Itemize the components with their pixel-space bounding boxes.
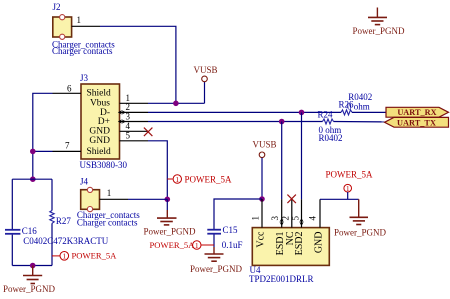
wire R27 bottom	[51, 223, 53, 265]
port UART_TX	[385, 117, 449, 127]
svg-text:1: 1	[195, 241, 199, 250]
node Vbus junction	[173, 101, 179, 107]
resistor R24 0 ohm	[323, 119, 334, 124]
svg-text:Power_PGND: Power_PGND	[144, 226, 197, 236]
wire D-	[148, 111, 341, 113]
svg-text:GND: GND	[313, 232, 324, 254]
svg-text:ESD2: ESD2	[294, 232, 305, 256]
no-ERC cross pin 4	[144, 128, 153, 137]
U4 pin 1 Vcc stub	[261, 199, 263, 228]
svg-text:POWER_5A: POWER_5A	[72, 250, 118, 260]
wire R27 branch top	[51, 179, 53, 210]
svg-text:TPD2E001DRLR: TPD2E001DRLR	[249, 274, 314, 284]
svg-text:0.1uF: 0.1uF	[222, 240, 243, 250]
svg-text:1: 1	[77, 15, 82, 25]
J3 pin 1 Vbus	[120, 102, 149, 104]
wire C15 bottom	[213, 235, 215, 248]
node RC bottom junction	[30, 263, 36, 269]
svg-text:C15: C15	[223, 225, 239, 235]
port UART_RX	[386, 107, 449, 117]
svg-text:5: 5	[291, 216, 301, 221]
svg-text:4: 4	[308, 216, 318, 221]
U4 pin 2 NC stub	[291, 199, 293, 227]
svg-text:Shield: Shield	[87, 89, 112, 99]
U4 pin 3 ESD1 stub	[281, 199, 283, 227]
power port VUSB (middle)	[253, 140, 277, 199]
wire RC bottom rail	[12, 265, 52, 267]
svg-text:3: 3	[126, 112, 131, 122]
svg-text:1: 1	[62, 252, 66, 261]
node Vcc junction	[259, 196, 265, 202]
pin ESD2 bidirectional arrows	[299, 218, 304, 226]
wire C16 branch top	[11, 179, 13, 229]
net label POWER_5A (1) bottom-left	[52, 250, 117, 260]
power port VUSB (top)	[194, 65, 218, 104]
J3 pin 5 GND	[120, 140, 149, 142]
svg-text:UART_TX: UART_TX	[397, 118, 436, 127]
ground under J4 Power_PGND	[144, 199, 197, 236]
svg-text:VUSB: VUSB	[194, 65, 218, 75]
svg-text:J4: J4	[80, 176, 89, 186]
node D- junction	[299, 110, 305, 116]
svg-text:1: 1	[107, 188, 112, 198]
pin ESD1 bidirectional arrows	[279, 218, 284, 226]
svg-text:0 ohm: 0 ohm	[347, 102, 370, 112]
svg-text:Power_PGND: Power_PGND	[190, 264, 243, 274]
svg-text:1: 1	[346, 184, 350, 193]
wire shield6 down left	[33, 93, 53, 179]
J4 pin 1 stub	[100, 198, 129, 200]
wire C16 bottom	[11, 235, 13, 266]
wire U4 GND to right ground	[320, 198, 359, 200]
J3 pin 7	[53, 150, 82, 152]
svg-text:5: 5	[126, 131, 131, 141]
wire GND5 down to J4 node	[148, 141, 167, 200]
svg-text:R24: R24	[318, 109, 334, 119]
svg-text:GND: GND	[89, 136, 110, 146]
node shield junction	[30, 149, 36, 155]
net label POWER_5A (1) at C15	[150, 240, 215, 250]
svg-text:D+: D+	[98, 117, 110, 127]
ground bottom-left Power_PGND	[3, 266, 56, 295]
svg-text:3: 3	[270, 216, 280, 221]
node RC top junction	[30, 176, 36, 182]
svg-text:POWER_5A: POWER_5A	[326, 169, 374, 179]
wire Vbus to VUSB node	[148, 102, 205, 104]
svg-text:C0402C472K3RACTU: C0402C472K3RACTU	[23, 236, 109, 246]
capacitor C16	[5, 226, 109, 246]
wire R24 to UART_TX port	[334, 121, 391, 123]
U4 pin 4 GND stub	[319, 199, 321, 227]
svg-text:POWER_5A: POWER_5A	[150, 240, 196, 250]
svg-text:2: 2	[281, 216, 291, 221]
wire node to J4 pin	[128, 198, 167, 200]
svg-text:C16: C16	[22, 226, 38, 236]
svg-text:Vcc: Vcc	[255, 231, 266, 248]
resistor R27	[50, 211, 54, 224]
svg-text:1: 1	[175, 175, 179, 184]
pin 3 bidirectional arrows	[118, 119, 126, 124]
wire ESD2 vertical	[301, 112, 303, 199]
svg-text:J3: J3	[80, 73, 89, 83]
svg-text:6: 6	[67, 84, 72, 94]
J2 pin 1 stub	[72, 25, 100, 27]
svg-text:R0402: R0402	[319, 133, 343, 143]
net label POWER_5A (1) mid-left	[167, 175, 232, 185]
wire ESD1 vertical	[281, 122, 283, 200]
capacitor C15	[207, 225, 242, 250]
svg-text:R27: R27	[56, 216, 72, 226]
svg-text:J2: J2	[53, 2, 61, 12]
U4 pin 5 ESD2 stub	[301, 199, 303, 227]
J3 pin 2 D-	[120, 111, 149, 113]
svg-text:Power_PGND: Power_PGND	[353, 26, 406, 36]
IC U4 TPD2E001DRLR	[249, 228, 329, 284]
svg-text:1: 1	[251, 216, 261, 221]
svg-text:POWER_5A: POWER_5A	[185, 175, 233, 185]
svg-text:7: 7	[65, 141, 70, 151]
ground right of U4 Power_PGND	[334, 199, 387, 237]
resistor R26 0 ohm	[341, 110, 352, 115]
wire shield7	[33, 150, 53, 152]
svg-text:UART_RX: UART_RX	[397, 108, 436, 117]
svg-text:Power_PGND: Power_PGND	[3, 284, 56, 294]
node D+ junction	[279, 119, 285, 125]
ground under C15 Power_PGND	[190, 254, 243, 274]
svg-text:Power_PGND: Power_PGND	[334, 227, 387, 237]
pin 2 bidirectional arrows	[118, 110, 126, 115]
connector J2	[52, 2, 115, 56]
wire RC top rail	[12, 178, 52, 180]
net label POWER_5A (1) right	[326, 169, 374, 199]
wire R26 to UART_RX port	[352, 111, 386, 113]
connector J3 USB	[80, 73, 128, 170]
J3 pin 6	[53, 92, 82, 94]
svg-text:VUSB: VUSB	[253, 140, 277, 150]
ground top-right Power_PGND	[353, 8, 406, 36]
svg-text:Charger contacts: Charger contacts	[77, 218, 138, 228]
svg-text:USB3080-30: USB3080-30	[80, 160, 128, 170]
svg-text:Charger contacts: Charger contacts	[52, 46, 113, 56]
J3 pin 3 D+	[120, 121, 149, 123]
svg-text:GND: GND	[89, 127, 110, 137]
J3 pin 4 GND	[120, 130, 149, 132]
connector J4	[77, 176, 140, 227]
wire D+	[148, 121, 323, 123]
wire J2 to Vbus node	[100, 26, 176, 103]
svg-text:Shield: Shield	[87, 147, 112, 157]
no-ERC cross NC pin	[287, 195, 296, 204]
node J4 junction	[165, 197, 171, 203]
wire Vcc node to C15	[214, 199, 262, 229]
